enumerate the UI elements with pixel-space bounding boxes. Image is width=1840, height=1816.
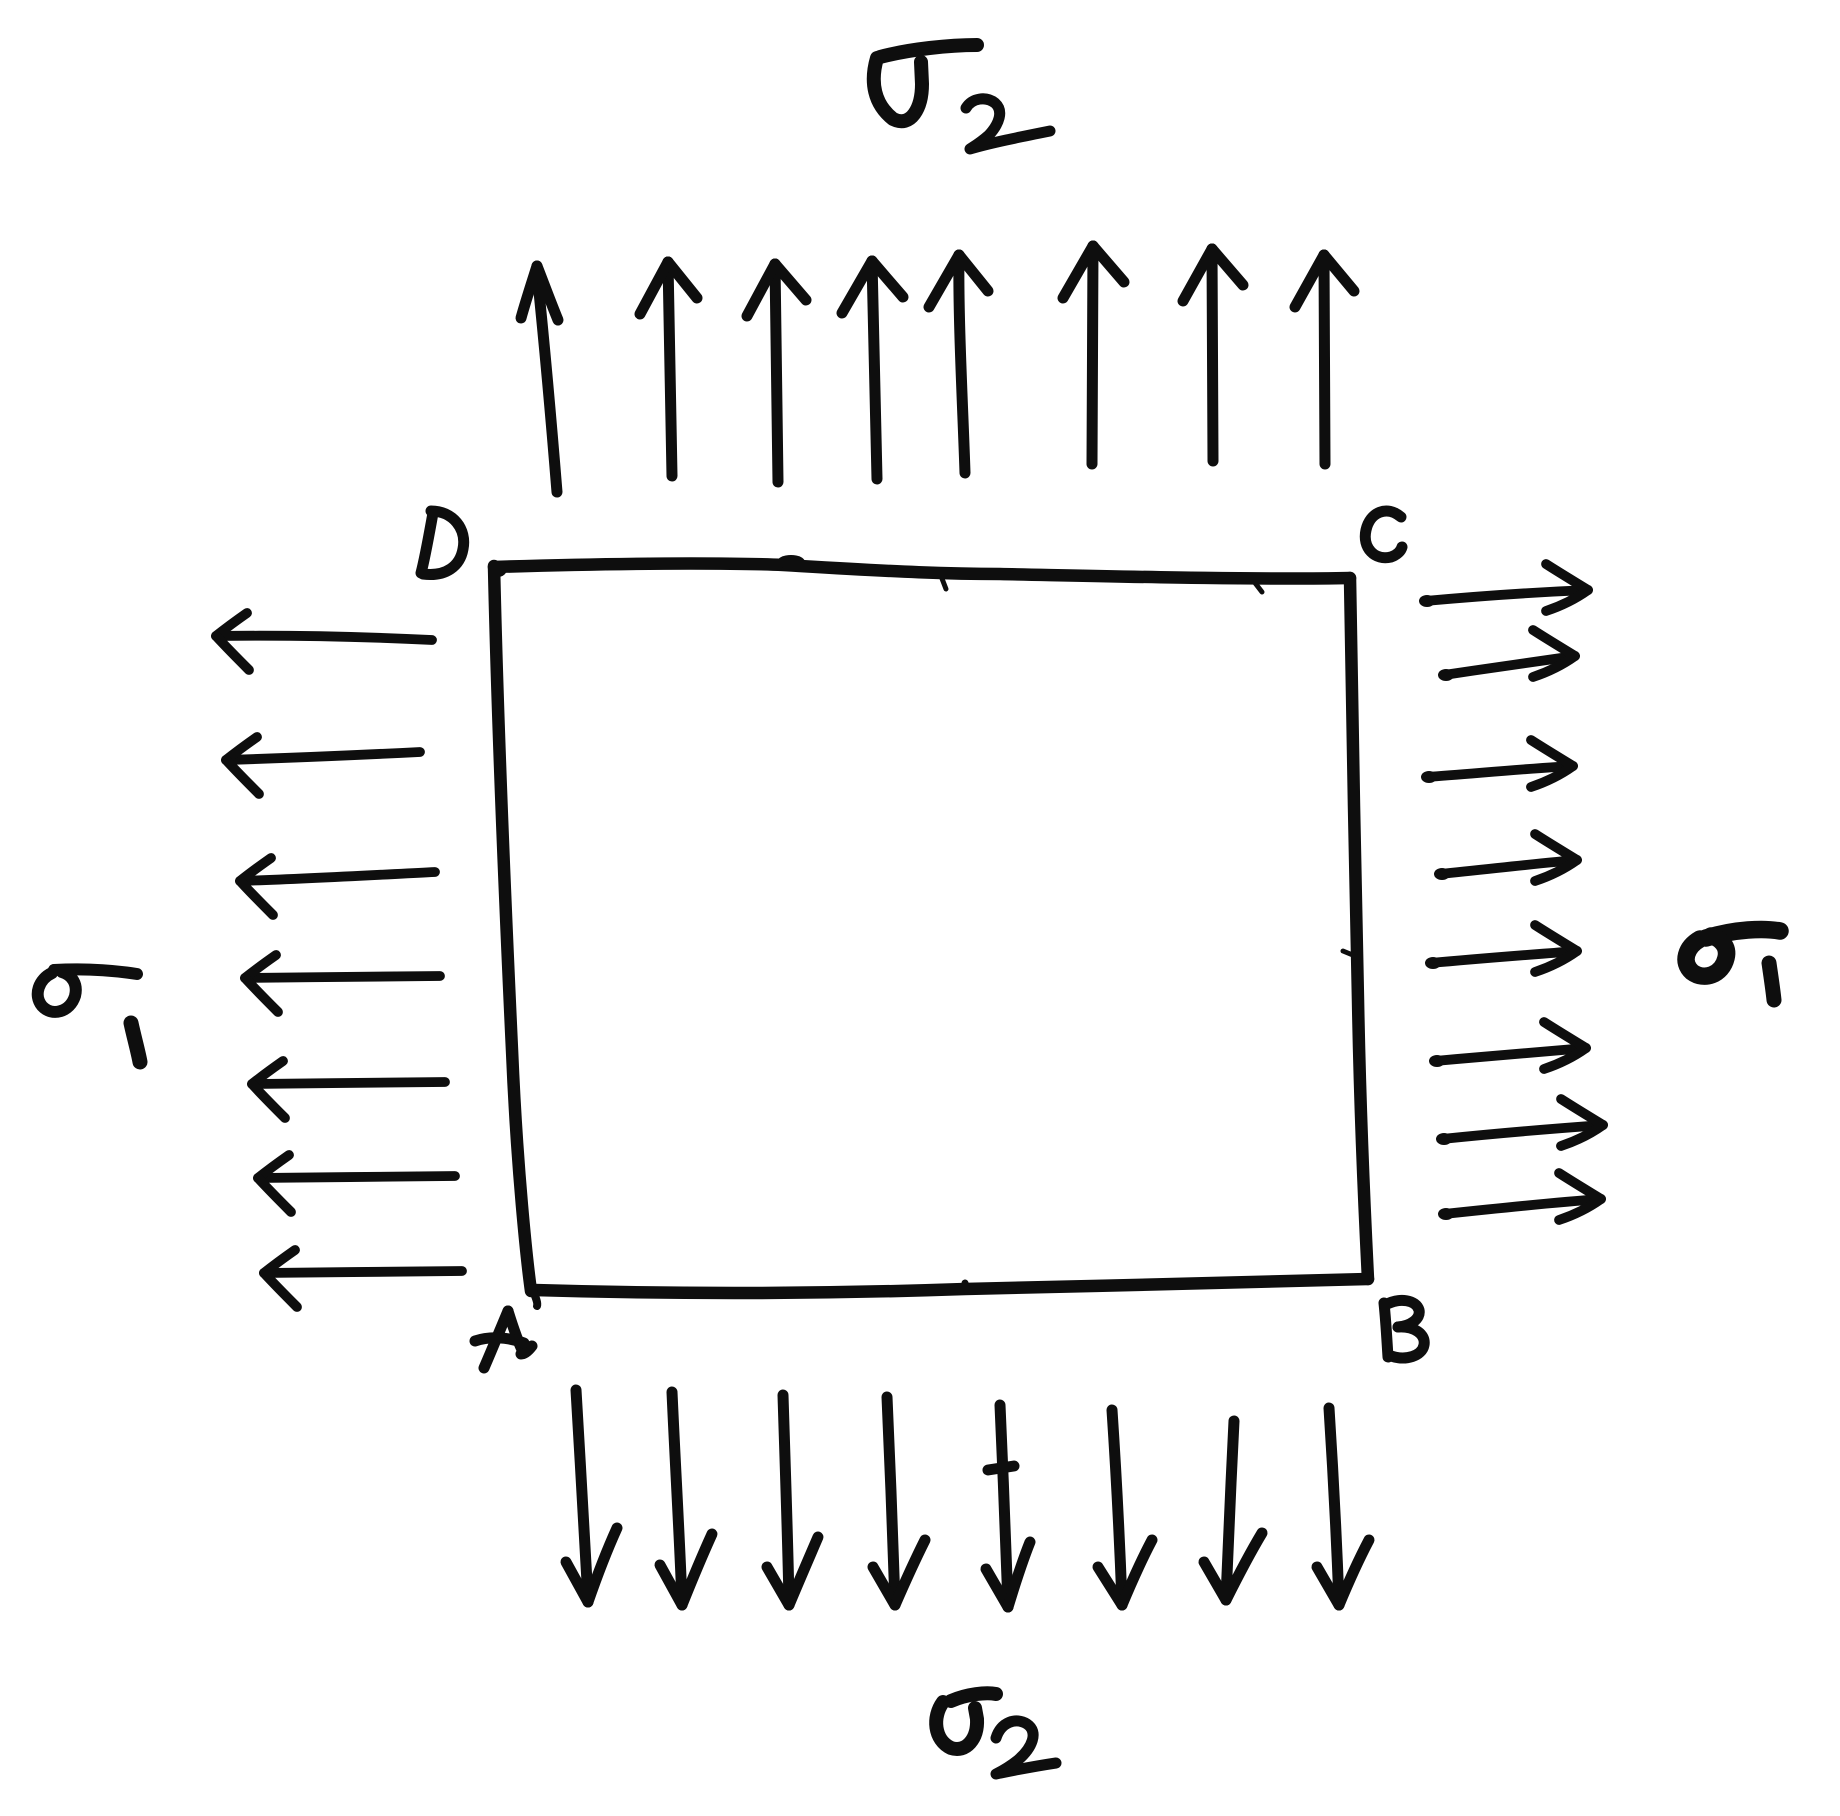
top arrow 7 bbox=[1183, 249, 1243, 461]
top arrow 2 bbox=[640, 262, 697, 476]
right arrow 4 bbox=[1434, 834, 1577, 881]
sigma1 label (right) : sigma glyph bbox=[1686, 929, 1780, 976]
top arrow 5 bbox=[929, 255, 988, 473]
left arrow 3 bbox=[240, 858, 435, 915]
bottom arrow 7 bbox=[1204, 1421, 1262, 1600]
square element ABCD : edge CB (right) bbox=[1343, 578, 1368, 1279]
top arrow 4 bbox=[842, 261, 903, 479]
sigma2 label (bottom) : sigma glyph bbox=[936, 1693, 996, 1749]
left arrow 5 bbox=[252, 1061, 445, 1118]
sigma2 label (top) : subscript 2 bbox=[966, 99, 1050, 149]
sigma1 label (right) : subscript 1 bbox=[1769, 963, 1774, 1000]
bottom arrow 5 bbox=[986, 1405, 1030, 1607]
right arrow 7 bbox=[1436, 1099, 1603, 1146]
corner label A bbox=[475, 1311, 532, 1368]
bottom arrow 3 bbox=[767, 1395, 818, 1605]
left arrow 4 bbox=[245, 955, 440, 1012]
top arrow 6 bbox=[1063, 246, 1124, 464]
right arrow 2 bbox=[1438, 630, 1575, 681]
square element ABCD : edge AB (bottom) bbox=[533, 1279, 1368, 1306]
corner label D bbox=[421, 511, 464, 574]
top arrow 1 (sigma2 upward) bbox=[521, 266, 558, 492]
right arrow 3 bbox=[1421, 740, 1573, 787]
top arrow 8 bbox=[1295, 255, 1354, 464]
sigma1 label (left) : sigma glyph bbox=[38, 969, 137, 1012]
top arrow 3 bbox=[747, 264, 806, 482]
right arrow 5 bbox=[1425, 925, 1577, 972]
bottom arrow 1 (sigma2 downward) bbox=[566, 1390, 617, 1602]
sigma2 label (top) : sigma glyph bbox=[874, 45, 977, 121]
sigma1 label (left) : subscript 1 bbox=[131, 1023, 140, 1062]
bottom arrow 2 bbox=[660, 1392, 712, 1605]
bottom arrow 6 bbox=[1098, 1410, 1152, 1605]
right arrow 6 bbox=[1429, 1022, 1586, 1069]
left arrow 2 bbox=[226, 737, 420, 794]
right arrow 1 (sigma1 rightward) bbox=[1419, 564, 1588, 611]
square element ABCD : edge DA (left) bbox=[489, 561, 531, 1291]
left arrow 7 bbox=[264, 1250, 462, 1307]
corner label B bbox=[1384, 1300, 1424, 1358]
left arrow 6 bbox=[258, 1155, 455, 1212]
square element ABCD : edge DC (top) bbox=[494, 555, 1350, 592]
bottom arrow 8 bbox=[1317, 1408, 1369, 1605]
right arrow 8 bbox=[1438, 1173, 1601, 1220]
corner label C bbox=[1365, 511, 1402, 558]
bottom arrow 4 bbox=[873, 1397, 925, 1605]
sigma2 label (bottom) : subscript 2 bbox=[996, 1721, 1056, 1774]
left arrow 1 (sigma1 leftward) bbox=[216, 613, 432, 670]
